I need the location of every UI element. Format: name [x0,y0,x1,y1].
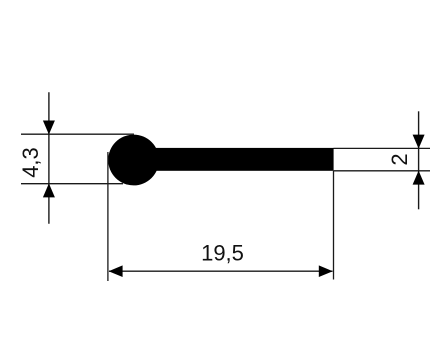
svg-text:4,3: 4,3 [18,147,43,178]
svg-text:2: 2 [387,153,412,165]
dim 19,5 right arrowhead [319,265,333,277]
dim 2 lower arrowhead [413,171,425,185]
dim 19,5 right extension line [333,171,335,280]
dim 4,3 upper arrowhead [43,121,55,135]
dim 19,5 dimension line [109,270,333,272]
dim 2 dimension line [418,111,420,209]
dim 19,5 left arrowhead [109,265,123,277]
dim 4,3 bottom extension line [21,183,123,185]
dim 4,3 dimension line [48,92,50,223]
dim 19,5 left extension line [107,152,109,281]
dim 2 upper arrowhead [413,135,425,149]
svg-text:19,5: 19,5 [201,240,244,265]
profile bulb (circle of flag profile) [108,135,159,186]
dim 4,3 top extension line [21,133,134,135]
dim 2 top extension line [334,147,431,149]
dim 2 bottom extension line [334,170,431,172]
profile flat bar [133,148,334,171]
dim 4,3 lower arrowhead [43,183,55,197]
